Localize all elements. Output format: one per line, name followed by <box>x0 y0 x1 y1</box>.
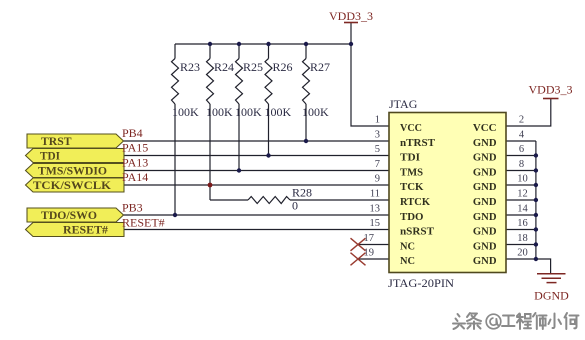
svg-text:14: 14 <box>517 204 528 215</box>
wire R27 column bottom <box>305 104 307 141</box>
watermark toutiao <box>453 313 481 329</box>
svg-text:100K: 100K <box>235 105 262 119</box>
wire pin20 stub <box>506 258 536 260</box>
svg-text:1: 1 <box>375 115 380 126</box>
svg-text:JTAG: JTAG <box>389 97 418 111</box>
wire TDO row pin13 <box>124 214 390 216</box>
wire pin16 stub <box>506 229 536 231</box>
wire pin12 stub <box>506 199 536 201</box>
power VDD3_3 right bar <box>543 98 559 100</box>
wire GND bus <box>535 141 537 259</box>
wire TMS row pin7 <box>124 170 389 172</box>
svg-text:11: 11 <box>370 189 380 200</box>
svg-text:TDI: TDI <box>40 151 61 163</box>
svg-text:100K: 100K <box>172 105 199 119</box>
op-amp JTAG connector body U1 <box>389 113 506 273</box>
wire GND tail <box>536 259 551 274</box>
wire R27 column top <box>305 44 307 59</box>
svg-text:RESET#: RESET# <box>122 216 165 230</box>
svg-text:R25: R25 <box>243 60 263 74</box>
port flag TRST <box>27 134 124 148</box>
svg-text:7: 7 <box>375 159 380 170</box>
svg-text:12: 12 <box>517 189 528 200</box>
wire pin2 to VDD <box>506 99 551 127</box>
svg-text:TCK/SWCLK: TCK/SWCLK <box>33 180 111 192</box>
svg-text:NC: NC <box>400 255 415 267</box>
port flag RESET# <box>26 223 125 237</box>
svg-text:3: 3 <box>375 130 380 141</box>
svg-text:GND: GND <box>473 211 497 223</box>
svg-text:VCC: VCC <box>473 122 497 134</box>
wire pin4 stub <box>506 140 536 142</box>
wire R25 column bottom <box>238 104 240 171</box>
no-connect X pin19 <box>351 253 366 266</box>
svg-text:4: 4 <box>519 130 525 141</box>
svg-text:TCK: TCK <box>400 181 424 193</box>
svg-text:RTCK: RTCK <box>400 196 430 208</box>
wire R26 column top <box>268 44 270 59</box>
svg-text:TDO/SWO: TDO/SWO <box>41 210 97 222</box>
svg-text:nTRST: nTRST <box>400 137 436 149</box>
svg-text:20: 20 <box>517 248 528 259</box>
svg-text:GND: GND <box>473 181 497 193</box>
svg-text:R24: R24 <box>214 60 234 74</box>
junction dot R24/TCK maroon <box>208 183 213 188</box>
wire pin8 stub <box>506 170 536 172</box>
wire NC pin17 stub <box>358 244 389 246</box>
port flag TMS/SWDIO <box>26 164 125 178</box>
svg-text:16: 16 <box>517 218 528 229</box>
junction dot R27/TRST <box>304 139 308 143</box>
svg-text:GND: GND <box>473 196 497 208</box>
wire TRST row pin3 <box>124 140 390 142</box>
svg-text:VDD3_3: VDD3_3 <box>329 9 373 23</box>
wire top VDD bus <box>175 43 351 45</box>
svg-text:R27: R27 <box>310 60 330 74</box>
svg-text:10: 10 <box>517 174 528 185</box>
resistor R28 <box>248 197 290 204</box>
wire pin6 stub <box>506 155 536 157</box>
port flag TDI <box>26 149 125 163</box>
svg-text:GND: GND <box>473 152 497 164</box>
wire RESET row pin15 <box>124 229 389 231</box>
wire R28 to pin11 <box>290 199 389 201</box>
wire TCK row pin9 <box>124 184 389 186</box>
wire pin14 stub <box>506 214 536 216</box>
junction dot R25/TMS <box>237 168 241 172</box>
wire R25 column top <box>238 44 240 59</box>
no-connect X pin17 <box>351 238 366 251</box>
svg-text:JTAG-20PIN: JTAG-20PIN <box>388 276 454 290</box>
wire pin10 stub <box>506 184 536 186</box>
ground DGND symbol <box>537 274 566 283</box>
svg-text:17: 17 <box>364 233 375 244</box>
svg-text:GND: GND <box>473 226 497 238</box>
svg-text:19: 19 <box>364 248 375 259</box>
svg-text:VCC: VCC <box>400 122 422 134</box>
svg-text:GND: GND <box>473 255 497 267</box>
svg-text:PA13: PA13 <box>122 156 148 170</box>
resistor R24 <box>207 59 214 105</box>
svg-text:0: 0 <box>292 199 298 213</box>
svg-text:TDO: TDO <box>400 211 424 223</box>
svg-text:DGND: DGND <box>534 289 569 303</box>
svg-text:8: 8 <box>519 159 524 170</box>
svg-text:13: 13 <box>370 204 381 215</box>
port flag TDO/SWO <box>27 208 124 222</box>
resistor R23 <box>172 59 179 105</box>
wire R24 column top <box>209 44 211 59</box>
junction dots on VDD bus <box>208 42 353 46</box>
svg-text:R26: R26 <box>273 60 293 74</box>
svg-text:15: 15 <box>370 218 381 229</box>
svg-text:100K: 100K <box>206 105 233 119</box>
svg-text:GND: GND <box>473 167 497 179</box>
svg-text:100K: 100K <box>265 105 292 119</box>
svg-text:TMS: TMS <box>400 167 423 179</box>
wire VDD3_3 to pin1 <box>351 23 389 127</box>
svg-text:R23: R23 <box>180 60 200 74</box>
port flag TCK/SWCLK <box>26 178 125 192</box>
svg-text:9: 9 <box>375 174 380 185</box>
resistor R27 <box>303 59 310 105</box>
svg-text:GND: GND <box>473 137 497 149</box>
svg-text:TRST: TRST <box>41 136 72 148</box>
wire NC pin19 stub <box>358 258 389 260</box>
wire R26 column bottom <box>268 104 270 156</box>
svg-text:TDI: TDI <box>400 152 420 164</box>
svg-text:100K: 100K <box>302 105 329 119</box>
svg-text:5: 5 <box>375 144 380 155</box>
wire pin18 stub <box>506 244 536 246</box>
svg-text:nSRST: nSRST <box>400 226 435 238</box>
svg-text:6: 6 <box>519 144 524 155</box>
svg-text:TMS/SWDIO: TMS/SWDIO <box>38 166 107 178</box>
wire R24 column bottom <box>209 104 211 200</box>
wire R23 column top <box>174 44 176 59</box>
svg-text:PA15: PA15 <box>122 141 148 155</box>
svg-text:2: 2 <box>519 115 524 126</box>
wire R23 column bottom <box>174 104 176 215</box>
svg-text:GND: GND <box>473 241 497 253</box>
wire TDI row pin5 <box>124 155 389 157</box>
svg-text:RESET#: RESET# <box>63 225 108 237</box>
resistor R25 <box>236 59 243 105</box>
svg-text:18: 18 <box>517 233 528 244</box>
junction dot R23/TDO <box>173 213 177 217</box>
resistor R26 <box>265 59 272 105</box>
power VDD3_3 top bar <box>344 22 358 24</box>
svg-text:PA14: PA14 <box>122 170 148 184</box>
svg-text:VDD3_3: VDD3_3 <box>529 83 573 97</box>
svg-text:NC: NC <box>400 241 415 253</box>
junction dots GND bus <box>534 153 538 261</box>
svg-text:R28: R28 <box>292 186 312 200</box>
svg-text:PB4: PB4 <box>122 126 143 140</box>
junction dot R26/TDI <box>266 153 270 157</box>
svg-text:PB3: PB3 <box>122 201 143 215</box>
wire R28 left <box>210 199 248 201</box>
